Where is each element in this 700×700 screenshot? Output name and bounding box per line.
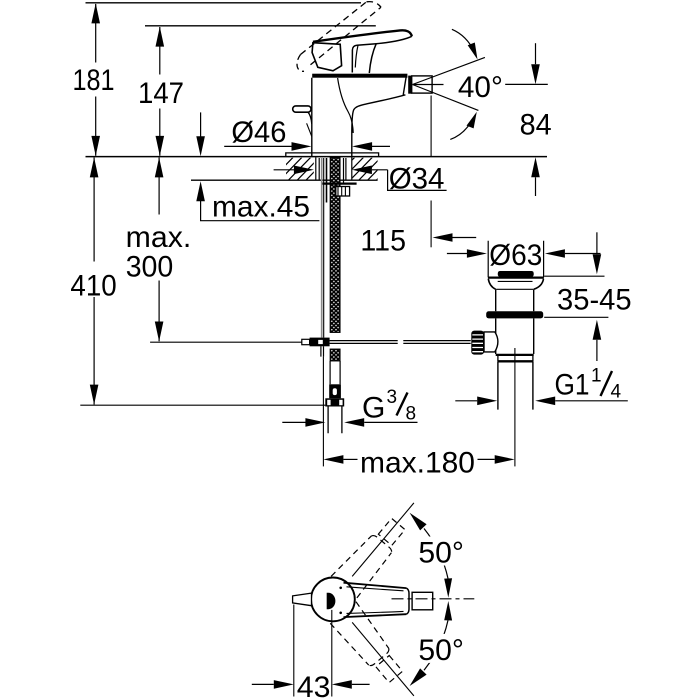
handle tip rectangle [412,592,433,610]
handle lever tip face [406,588,409,614]
spray angle upper arc arrowhead [468,43,478,60]
dimension 84 lower segment [535,177,537,196]
svg-text:115: 115 [360,225,406,258]
lever neck right edge [369,44,376,73]
pop-up rod gray [321,158,323,338]
dimension 43 right arrow [332,680,352,689]
popup upper body [496,289,534,311]
dimension 115 arrow [433,233,453,242]
dimension D34 line right [372,169,388,171]
svg-text:410: 410 [70,270,116,303]
dimension D63 left arrow [467,249,487,258]
G38 nut notches [327,400,330,405]
spray fan lower line [413,85,479,111]
popup flange rim [488,277,544,279]
35-45 upper reference [544,275,604,277]
aerator outlet [412,76,432,93]
dimension 35-45 up arrow [593,320,602,340]
dimension 147 up arrow [156,27,165,47]
clevis slot [318,340,323,344]
popup side boss [484,332,498,352]
raised lever dashed line 1 [301,2,367,55]
svg-text:Ø63: Ø63 [489,239,542,272]
faucet body top band [312,74,407,78]
dimension 43 line left [252,683,274,685]
handle swing upper extension line [352,503,414,577]
dimension 410 up arrow [90,157,99,177]
147 reference line (spout height) [145,25,376,27]
cartridge stem D shape [327,593,336,609]
outlet extension line upper [430,96,432,157]
dimension max.45 down arrow [196,136,205,156]
swing lower arc arrowhead bottom [410,668,427,686]
cartridge grip pentagon [312,43,342,71]
dimension max.45 up arrow [196,181,205,201]
G1 1/4 underline [555,400,628,402]
clevis block [310,338,330,347]
svg-text:G: G [362,392,385,425]
lever neck inner line [355,45,358,67]
dimension 410 line [93,158,95,405]
G38 left arrow [305,418,325,427]
svg-text:300: 300 [126,250,174,283]
dimension 35-45 upper segment [596,232,598,254]
mounting nut ridges [338,187,345,196]
handle lever inner bottom line [347,611,404,613]
dimension D46 left arrow [292,142,312,151]
hole right edge [351,157,353,181]
raised lever dashed heel [297,55,304,72]
top reference line (handle max height) [86,2,362,4]
popup flange extension lines [488,241,543,277]
35-45 lower reference [544,316,608,318]
swing lower arc arrowhead top [444,601,452,621]
svg-text:40°: 40° [458,71,503,104]
linkage extension line [150,341,302,343]
dimension 115 line [453,237,477,239]
swing upper arc arrowhead top [410,513,427,531]
svg-text:35-45: 35-45 [557,283,632,316]
pop-up knob (top view) [293,593,312,606]
dimension D46 line left [224,145,292,147]
popup lock ring [486,311,543,318]
G1 1/4 dimension left line [455,400,477,402]
swing angle upper arc [424,529,448,579]
hose end fitting hole [333,388,337,395]
mounting washer [323,183,357,185]
popup lower body [496,318,534,354]
rod tail below clevis [321,346,324,356]
swing upper arc arrowhead bottom [444,578,452,598]
dimension max.180 right arrow [495,455,515,464]
popup flange funnel sides [488,279,543,290]
G38 right arrow [344,418,364,427]
spout face [403,77,406,96]
dimension max.180 line left [343,458,357,460]
faucet body right wall [351,134,353,157]
dimension D34 line left [274,169,294,171]
linkage rod [330,341,471,344]
dimension 84 down arrow [531,64,540,84]
410 bottom reference line [80,404,325,406]
dimension 147 line [159,27,161,156]
spray center reference line [505,83,548,85]
pop-up rod black [323,158,325,338]
svg-text:Ø46: Ø46 [231,116,286,149]
svg-text:3: 3 [387,387,398,408]
popup shoulder line [496,288,533,290]
spout inner curve [338,78,354,133]
dimension max.300 up arrow [155,157,164,177]
shank line [318,158,320,180]
dimension 84 up arrow [531,157,540,177]
svg-text:50°: 50° [418,537,464,570]
label 50deg upper mask [416,537,467,566]
handle centerline [392,598,475,600]
dimension 43 left arrow [274,680,294,689]
braided hose upper [330,158,340,333]
popup centerline [514,348,516,466]
handle lever bottom edge [344,614,407,617]
hose smooth section [330,361,340,384]
dimension D63 right arrow [545,249,565,258]
dimension 410 down arrow [90,385,99,405]
mounting nut [336,187,350,197]
G38 nut [325,398,344,406]
spray fan upper line [413,57,485,84]
G38 dimension left line [282,421,305,423]
G38 underline [364,421,417,423]
svg-text:50°: 50° [418,634,464,667]
hose end fitting [329,384,341,398]
faucet body left wall [311,78,313,157]
lowered handle dashed (lower 50) [330,602,409,687]
handle lever dots [339,587,342,590]
popup flange inner line [498,280,533,282]
pop-up knob rod [307,123,312,136]
svg-text:181: 181 [73,64,115,97]
braided hose lower [330,349,340,361]
max180 left extension line [322,357,324,467]
raised lever dashed line 2 [311,7,382,65]
svg-text:max.45: max.45 [212,191,310,224]
dimension 35-45 down arrow [593,254,602,274]
svg-text:84: 84 [520,108,552,141]
G1 1/4 right arrow [535,397,555,406]
svg-text:8: 8 [406,404,417,425]
popup dome cap [498,271,534,277]
swing angle lower arc [424,620,448,670]
spray angle lower arc arrowhead [467,112,477,129]
spray center stub [413,84,444,86]
dimension 35-45 lower segment [596,340,598,361]
svg-text:4: 4 [611,382,622,403]
washer line right part [344,158,346,183]
raised handle dashed (upper 50) [331,513,410,598]
dimension D46 right arrow [352,142,372,151]
spray angle upper arc [452,29,474,51]
dimension D63 line left [447,253,467,255]
lever blade under edge and neck left edge [352,36,412,72]
raised lever dashed tip [367,2,382,8]
popup body bottom [496,354,534,356]
dimension 147 down arrow [156,136,165,156]
spray angle lower arc [450,122,471,140]
handle lever inner top line [347,587,404,591]
dimension max.45 upper leader [200,112,202,137]
dimension max.45 lower leader [201,201,320,221]
dimension max.300 line [158,158,160,342]
svg-text:max.180: max.180 [360,446,475,479]
dimension 84 upper segment [535,43,537,64]
svg-text:max.: max. [126,221,192,254]
dimension 181 line [95,4,97,156]
G1 1/4 left arrow [477,397,497,406]
popup knurled knob [471,331,484,355]
base plate (escutcheon) [286,153,379,157]
dimension D46 line right [372,145,390,147]
deck hatching [270,157,399,181]
handle swing lower extension line [352,622,414,696]
43 extension line right [331,610,333,697]
clevis stub [302,339,310,344]
aerator junction [408,76,412,94]
pop-up knob bar [293,106,311,112]
G38 tube [328,407,342,434]
dimension max.180 line right [478,458,495,460]
svg-text:G1: G1 [555,369,590,402]
hole left edge [315,157,317,180]
D34 label frame [388,170,447,191]
deck / counter top line [86,156,548,158]
lever blade top edge bold [313,30,412,42]
svg-text:Ø34: Ø34 [389,163,445,196]
dimension D34 left arrow [294,166,314,175]
svg-text:43: 43 [297,671,331,700]
spout underside [352,95,406,134]
dimension max.300 down arrow [155,322,164,342]
svg-text:147: 147 [138,77,184,110]
svg-text:1: 1 [591,366,602,387]
deck bottom line [191,179,378,181]
outlet extension line lower [430,201,432,248]
43 extension line left [293,605,295,697]
nut left edge line [326,158,328,203]
handle lever top edge [344,583,407,588]
dimension D63 line right [565,253,601,255]
dimension 181 down arrow [91,136,100,156]
dimension 43 line right [352,683,370,685]
dimension max.180 left arrow [323,455,343,464]
dimension D34 right arrow [352,166,372,175]
dimension 181 up arrow [91,3,100,23]
label 50deg lower mask [416,634,467,663]
popup tailpipe [498,362,533,410]
pop-up knob curve [308,112,312,124]
handle body circle [311,578,355,622]
